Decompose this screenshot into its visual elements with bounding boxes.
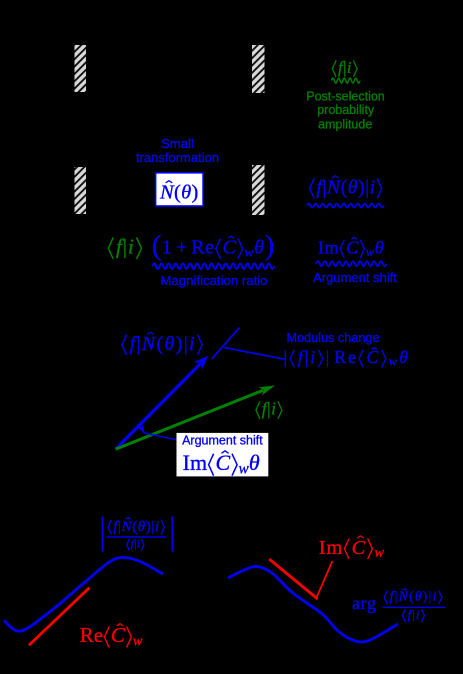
- svg-text:i: i: [370, 176, 376, 198]
- svg-text:amplitude: amplitude: [318, 117, 372, 131]
- green wavy underline: [332, 78, 361, 83]
- svg-text:i: i: [416, 607, 421, 622]
- label <f|i> post-selection amplitude (green): [332, 60, 336, 77]
- arc arrowhead: [138, 425, 147, 435]
- svg-text:Small: Small: [161, 136, 194, 151]
- svg-text:θ: θ: [165, 333, 176, 355]
- modulus bars: [102, 517, 104, 552]
- svg-text:Re: Re: [80, 623, 103, 647]
- fraction bar: [107, 536, 167, 538]
- svg-text:θ: θ: [375, 238, 384, 258]
- svg-text:i: i: [310, 347, 317, 367]
- svg-text:(: (: [152, 230, 162, 262]
- svg-text:Argument shift: Argument shift: [313, 270, 397, 285]
- svg-text:N: N: [326, 176, 342, 198]
- svg-text:C: C: [216, 450, 231, 475]
- svg-text:i: i: [433, 589, 438, 604]
- box N(theta): [156, 173, 204, 206]
- svg-text:+: +: [176, 237, 188, 259]
- svg-text:w: w: [244, 246, 254, 261]
- svg-text:N: N: [141, 333, 157, 355]
- label <f|N(theta)|i> on blue vector: [122, 335, 127, 355]
- svg-text:w: w: [133, 633, 143, 649]
- red tangent line Im: [269, 559, 318, 599]
- svg-text:): ): [176, 333, 184, 355]
- svg-text:): ): [265, 230, 275, 262]
- svg-text:Post-selection: Post-selection: [306, 89, 385, 103]
- svg-text:): ): [192, 182, 199, 204]
- svg-text:i: i: [137, 538, 141, 551]
- red tangent line Re: [29, 588, 89, 646]
- formula <f|N(theta)|i> (blue): [310, 178, 315, 198]
- hatched screen bar top-left: [75, 45, 87, 92]
- svg-text:i: i: [271, 399, 276, 419]
- svg-text:Im: Im: [318, 238, 339, 258]
- hatched screen bar mid-right: [252, 165, 265, 215]
- svg-text:θ: θ: [348, 176, 358, 198]
- green vector <f|i>: [116, 390, 264, 449]
- hatched screen bar mid-left: [75, 167, 87, 214]
- svg-text:N: N: [398, 589, 409, 604]
- svg-text:θ: θ: [415, 589, 423, 604]
- blue extension line (modulus change): [212, 328, 240, 360]
- svg-text:C: C: [223, 237, 237, 259]
- svg-text:): ): [358, 176, 365, 198]
- leader line to modulus-change formula: [224, 347, 284, 359]
- blue vector <f|N(theta)|i>: [116, 364, 201, 449]
- red leader line: [317, 561, 333, 597]
- svg-text:θ: θ: [399, 347, 410, 367]
- svg-text:1: 1: [162, 237, 173, 259]
- svg-text:θ: θ: [249, 450, 260, 475]
- blue wavy underline under <f|N(theta)|i>: [307, 204, 384, 208]
- blue curve (modulus vs theta): [4, 557, 163, 631]
- svg-text:Re: Re: [334, 347, 358, 367]
- svg-text:|: |: [284, 347, 290, 367]
- svg-text:θ: θ: [181, 182, 191, 204]
- svg-text:Re: Re: [191, 237, 214, 259]
- fraction numerator <f|N(theta)|i>: [108, 520, 111, 535]
- svg-text:i: i: [128, 235, 135, 259]
- svg-text:probability: probability: [317, 103, 375, 117]
- svg-text:w: w: [366, 245, 375, 259]
- svg-text:θ: θ: [254, 237, 264, 259]
- arg fraction bar: [383, 606, 446, 608]
- hatched screen bar top-right: [252, 45, 265, 93]
- leader line arc to label box: [144, 433, 178, 440]
- svg-text:arg: arg: [352, 593, 376, 613]
- arg fraction denominator: [403, 609, 406, 622]
- svg-text:(: (: [341, 176, 348, 198]
- svg-text:Modulus change: Modulus change: [286, 331, 379, 345]
- svg-text:w: w: [239, 461, 250, 478]
- blue wavy underline argument shift: [316, 261, 386, 266]
- svg-text:Im: Im: [319, 537, 343, 559]
- svg-text:θ: θ: [138, 519, 146, 535]
- svg-text:i: i: [155, 519, 160, 535]
- svg-text:i: i: [347, 58, 352, 77]
- svg-text:N: N: [121, 519, 133, 535]
- svg-text:w: w: [374, 545, 384, 561]
- formula <f|i> (green, product row): [108, 238, 113, 260]
- svg-text:Im: Im: [183, 450, 208, 475]
- arg fraction numerator: [384, 591, 387, 605]
- svg-text:w: w: [389, 355, 399, 369]
- svg-text:C: C: [352, 537, 366, 559]
- svg-text:i: i: [189, 333, 196, 355]
- blue curve (argument vs theta): [228, 566, 398, 642]
- svg-text:N: N: [159, 182, 175, 204]
- label <f|i> on green vector: [256, 401, 260, 419]
- svg-text:Argument shift: Argument shift: [182, 434, 263, 448]
- angle arc (argument shift): [138, 425, 144, 433]
- white label box: [177, 433, 269, 477]
- svg-text:C: C: [111, 623, 126, 647]
- svg-text:Magnification ratio: Magnification ratio: [160, 273, 267, 288]
- fraction denominator <f|i>: [127, 539, 130, 551]
- svg-text:|: |: [326, 347, 332, 367]
- svg-text:(: (: [157, 333, 165, 355]
- svg-text:transformation: transformation: [136, 150, 219, 165]
- svg-text:(: (: [174, 182, 181, 204]
- svg-text:C: C: [367, 347, 381, 367]
- svg-text:C: C: [346, 238, 359, 258]
- blue wavy underline magnification: [153, 263, 275, 269]
